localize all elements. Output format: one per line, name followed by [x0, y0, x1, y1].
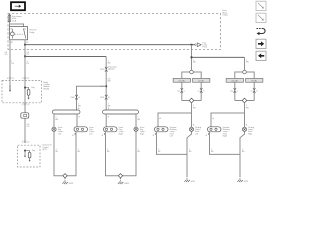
A left option label box [173, 78, 190, 82]
feed wire to structure B [192, 56, 245, 58]
svg-text:C2: C2 [27, 104, 29, 106]
svg-text:Right: Right [119, 132, 124, 135]
wire feed B down [244, 57, 246, 70]
junction S-right [191, 44, 193, 46]
svg-text:Jumper: Jumper [109, 69, 115, 71]
B connector oval (daytime running lamp right) [208, 127, 222, 132]
svg-text:30: 30 [24, 28, 26, 30]
oval1 pin B exit [75, 132, 76, 135]
B left leg wire [234, 82, 236, 100]
toolbar icon zoom-out (diagonal arrow 1) [256, 1, 266, 10]
B left leg corner [235, 100, 243, 102]
toolbar icon previous (left arrow) [256, 51, 266, 60]
wire relay 87 continues down [24, 45, 26, 57]
front fog lamp right bulb [134, 127, 138, 131]
connector oval 1 [74, 127, 88, 132]
splice S101 dot [105, 85, 107, 87]
wire center feed down [105, 56, 107, 110]
B right leg wire [253, 82, 255, 100]
toolbar icon jump/return curved arrow [257, 28, 263, 30]
relay coil [11, 32, 15, 36]
BCM branch to sense resistor [25, 88, 29, 90]
B left ground wire [210, 135, 241, 155]
A right leg corner [194, 100, 202, 102]
A lamp (parking lamp left) [189, 127, 193, 131]
B right leg corner [247, 100, 255, 102]
lamp1 ground wire [54, 131, 63, 175]
B option split circle [243, 70, 247, 74]
A oval pin B exit [155, 132, 156, 135]
A right option label box [193, 78, 210, 82]
body control module dashed box [2, 81, 42, 103]
B bottom branch wire [211, 113, 245, 127]
lamp2 ground wire [123, 131, 136, 175]
ground G102 [64, 178, 66, 182]
wire branch fuse to relay pin 30 [10, 24, 24, 27]
splice diamond group1 [63, 174, 67, 178]
B ground G112 [239, 176, 241, 180]
relay coil-switch dotted link [14, 33, 23, 35]
junction at left feed [24, 56, 26, 58]
box1 right stub [76, 114, 78, 127]
cluster indicator arrow [29, 158, 31, 160]
A right leg wire [200, 82, 202, 100]
A right option branch [193, 72, 201, 78]
front fog lamp right housing box [103, 110, 139, 114]
box2 right stub [135, 114, 137, 127]
A connector oval (daytime running lamp left) [155, 127, 169, 132]
cluster main arrow [24, 151, 26, 156]
svg-text:C2: C2 [27, 142, 29, 144]
fog lamp feed wire (horizontal) [25, 44, 192, 46]
svg-text:G112: G112 [244, 181, 248, 183]
svg-text:G102: G102 [69, 183, 74, 185]
wire feed A down [191, 45, 193, 70]
box1 left stub [53, 114, 55, 127]
svg-text:G103: G103 [124, 183, 129, 185]
oval1 ground wire [67, 135, 76, 176]
svg-text:X126: X126 [100, 69, 104, 71]
svg-text:w/ DRL: w/ DRL [251, 80, 257, 82]
BCM coil control arrow [9, 85, 11, 90]
connector tick below BCM [24, 103, 27, 105]
svg-text:Fog: Fog [32, 150, 35, 152]
A lamp wire [191, 113, 193, 127]
junction A-B tee [191, 56, 193, 58]
svg-text:(BCM): (BCM) [44, 88, 50, 90]
wire relay 87 down to BCM [24, 56, 26, 143]
svg-text:86: 86 [10, 28, 12, 30]
BCM sense arrow [28, 95, 30, 98]
A option split circle [190, 70, 194, 74]
svg-text:C1: C1 [27, 78, 29, 80]
fog lamp relay box [10, 27, 28, 40]
svg-text:w/o DRL: w/o DRL [178, 80, 185, 82]
svg-text:87: 87 [26, 42, 28, 44]
center branch inline connector [105, 95, 108, 97]
svg-text:Feed: Feed [203, 47, 207, 49]
svg-text:Left: Left [195, 132, 198, 135]
toolbar icon next (right arrow) [256, 39, 266, 48]
A ground G111 [186, 176, 188, 180]
B lamp ground wire [240, 131, 245, 176]
connector oval 2 [104, 127, 118, 132]
connector tick above cluster [24, 141, 27, 143]
svg-text:C1: C1 [12, 78, 14, 80]
A left leg wire [181, 82, 183, 100]
front fog lamp left bulb [52, 127, 56, 131]
svg-text:w/o DRL: w/o DRL [231, 80, 238, 82]
svg-text:Left: Left [89, 132, 92, 135]
instrument cluster dashed box [18, 145, 41, 167]
B left option branch [235, 72, 243, 78]
B lamp wire [244, 113, 246, 127]
front fog lamp left housing box [52, 110, 80, 114]
junction relay feed [24, 44, 26, 46]
svg-text:w/o: w/o [230, 90, 233, 92]
svg-text:Fog: Fog [32, 87, 35, 89]
A left leg corner [182, 100, 190, 102]
BCM splice dot [24, 87, 26, 89]
svg-text:w/ DRL: w/ DRL [198, 80, 204, 82]
A bottom branch wire [158, 113, 192, 127]
B right option branch [246, 72, 254, 78]
center inline connector X126 [105, 67, 108, 69]
wire relay pin 87 down [24, 40, 26, 45]
A left ground wire [157, 135, 188, 155]
svg-text:Left: Left [58, 132, 61, 135]
wire from fuse block top to fuse [9, 14, 11, 16]
fuse Fog Lamps 15A [9, 15, 11, 22]
connector tick C1 left [9, 77, 12, 79]
splice branch wire to left lamp [77, 86, 107, 110]
A lamp ground wire [187, 131, 192, 176]
cluster indicator [28, 152, 31, 158]
cluster splice dot [24, 150, 26, 152]
toolbar icon zoom-in (diagonal arrow 2) [256, 13, 266, 22]
svg-text:Right: Right [248, 132, 253, 135]
A merge diamond [189, 98, 194, 103]
svg-text:X100: X100 [70, 97, 74, 99]
A right leg connector [200, 88, 203, 90]
feed wire to center branch [25, 55, 106, 57]
svg-text:Relay: Relay [30, 32, 35, 34]
svg-text:Right: Right [140, 132, 145, 135]
A left option branch [182, 72, 190, 78]
box2 left stub [105, 114, 107, 127]
inline connector (pass-through) [21, 113, 29, 118]
splice diamond group2 [118, 174, 122, 178]
ground G103 [120, 178, 122, 182]
svg-text:Right: Right [223, 134, 228, 137]
wire fuse to relay pin 86 [9, 22, 11, 27]
B left leg connector [234, 88, 237, 90]
B left option label box [226, 78, 243, 82]
svg-text:8: 8 [22, 142, 23, 144]
oval2 pin B exit [104, 132, 105, 135]
svg-text:w/o: w/o [177, 90, 180, 92]
relay switch blade [24, 29, 26, 39]
B right leg connector [253, 88, 256, 90]
off-page connector triangle [197, 43, 201, 47]
B merge diamond [242, 98, 247, 103]
connector tick C1 right [24, 77, 27, 79]
page navigation icon box (top left) [11, 2, 25, 10]
svg-text:4: 4 [22, 104, 23, 106]
B lamp (parking lamp right) [242, 127, 246, 131]
oval2 ground wire [106, 135, 119, 176]
BCM sense resistor [27, 89, 30, 95]
svg-text:Under-: Under- [223, 14, 229, 17]
svg-text:4: 4 [7, 78, 8, 80]
A output wire [191, 103, 193, 113]
svg-text:(IPC): (IPC) [43, 149, 48, 151]
B output wire [244, 103, 246, 113]
svg-text:X101: X101 [100, 97, 104, 99]
B right option label box [246, 78, 263, 82]
cluster indicator branch [25, 151, 30, 153]
svg-text:85: 85 [11, 42, 13, 44]
svg-text:Left: Left [170, 134, 173, 137]
wire relay pin 85 down to BCM [9, 40, 11, 92]
svg-text:5: 5 [22, 78, 23, 80]
underhood fuse block (dashed enclosure) [8, 14, 221, 50]
left branch inline connector [75, 95, 78, 97]
A left leg connector [181, 88, 184, 90]
svg-text:G111: G111 [191, 181, 195, 183]
B oval pin B exit [208, 132, 209, 135]
